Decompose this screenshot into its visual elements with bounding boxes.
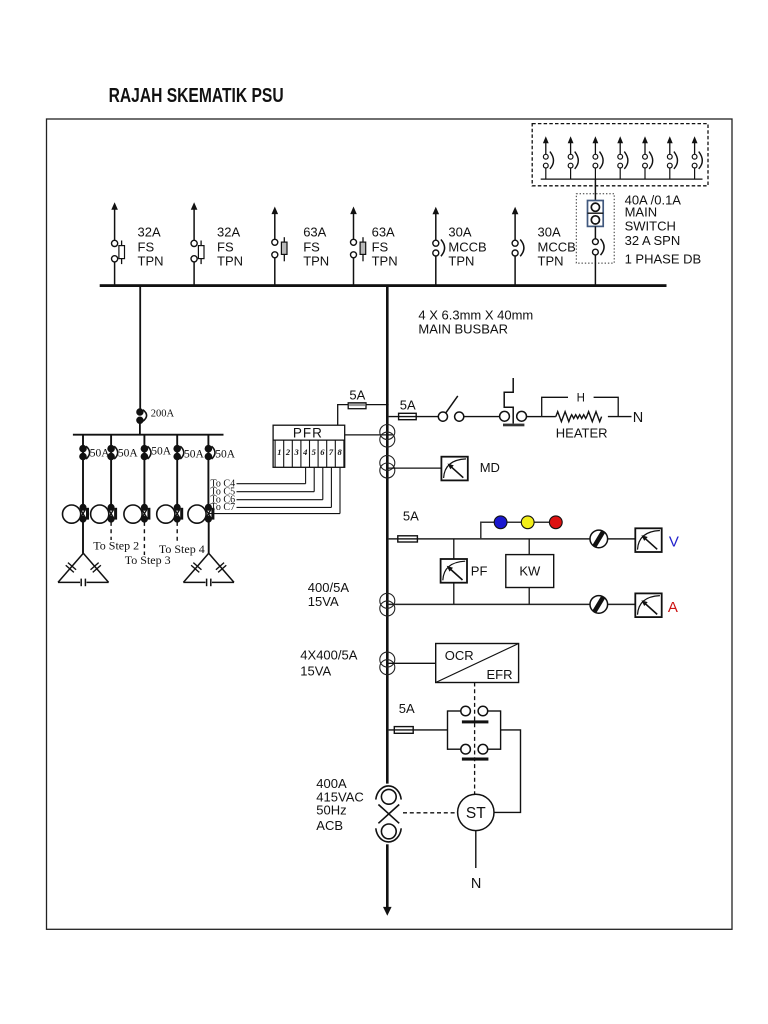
- svg-text:MAIN BUSBAR: MAIN BUSBAR: [418, 322, 508, 337]
- indicator lamp blue: [494, 516, 507, 529]
- fuse 5A contactor: [394, 727, 413, 734]
- dashed drop To Step 4: [176, 522, 178, 543]
- svg-text:To C7: To C7: [211, 502, 236, 513]
- DB mini feeders x7: [543, 136, 702, 179]
- MCCB feeder F6 30A: [512, 207, 524, 286]
- svg-text:50A: 50A: [90, 448, 111, 460]
- labels To C4-C7: [211, 478, 236, 513]
- svg-text:5A: 5A: [403, 508, 419, 523]
- svg-text:TPN: TPN: [217, 254, 243, 269]
- wire KW to A row: [528, 588, 530, 605]
- svg-text:N: N: [471, 876, 481, 892]
- svg-text:50Hz: 50Hz: [316, 803, 346, 818]
- wire CT4 to OCR: [387, 662, 435, 664]
- main switch dotted enclosure: [576, 194, 614, 263]
- svg-text:TPN: TPN: [138, 254, 164, 269]
- dashed trip line OCR to ST: [474, 683, 476, 795]
- label F3 63A FS TPN: [303, 225, 329, 269]
- capacitor delta bank 1: [58, 553, 109, 586]
- svg-text:To Step 4: To Step 4: [159, 542, 205, 556]
- fuse (V meter): [590, 530, 608, 548]
- svg-text:1 PHASE DB: 1 PHASE DB: [625, 252, 702, 267]
- svg-text:H: H: [577, 393, 585, 405]
- label F1 32A FS TPN: [138, 225, 164, 269]
- svg-text:TPN: TPN: [372, 254, 398, 269]
- wire bus to heater switch: [389, 416, 439, 418]
- svg-text:MCCB: MCCB: [448, 240, 486, 255]
- wire: [527, 416, 542, 418]
- PFR box: [273, 425, 345, 467]
- 1 phase DB dashed box: [532, 124, 708, 186]
- dashed line ACB to ST: [403, 812, 458, 814]
- fuse-switch feeder F3 63A: [272, 207, 288, 286]
- svg-text:FS: FS: [217, 240, 234, 255]
- svg-text:15VA: 15VA: [300, 664, 331, 679]
- label F4 63A FS TPN: [372, 225, 398, 269]
- main riser bus: [386, 285, 389, 784]
- svg-text:RAJAH SKEMATIK PSU: RAJAH SKEMATIK PSU: [109, 85, 284, 107]
- main switch fuse unit (blue): [58, 192, 701, 916]
- svg-text:50A: 50A: [184, 448, 205, 460]
- svg-text:2: 2: [285, 447, 291, 457]
- wire PFR to CT1: [345, 434, 393, 436]
- svg-text:PFR: PFR: [293, 425, 323, 440]
- svg-text:A: A: [668, 599, 678, 616]
- fuse-switch feeder F4 63A: [350, 207, 366, 286]
- CT 3: [380, 593, 395, 616]
- fuse 5A heater: [399, 413, 417, 419]
- svg-text:FS: FS: [138, 240, 155, 255]
- wire V row to PF: [453, 539, 455, 559]
- label 4X400/5A 15VA: [300, 648, 357, 679]
- dashed drop To Step 3: [143, 522, 145, 555]
- indicator lamp red: [549, 516, 562, 529]
- wire A row: [387, 603, 635, 605]
- wire contactor to ST: [494, 730, 521, 813]
- svg-text:OCR: OCR: [445, 648, 474, 663]
- svg-text:FS: FS: [303, 240, 320, 255]
- svg-text:50A: 50A: [118, 448, 138, 460]
- svg-text:KW: KW: [519, 564, 541, 579]
- fuse-switch feeder F1 32A: [111, 202, 124, 285]
- svg-text:200A: 200A: [151, 408, 175, 419]
- ACB drawout breaker: [376, 786, 401, 842]
- svg-text:63A: 63A: [372, 225, 395, 240]
- wire CT2 to MD: [387, 467, 441, 469]
- svg-text:SWITCH: SWITCH: [625, 219, 676, 234]
- PFR terminal cells: [275, 440, 344, 467]
- meter A: [635, 593, 661, 617]
- CT 1: [380, 425, 395, 448]
- svg-text:5A: 5A: [349, 388, 365, 403]
- ST coil circle: [458, 794, 494, 830]
- svg-text:5: 5: [312, 447, 317, 457]
- svg-text:50A: 50A: [151, 446, 172, 458]
- svg-text:32 A SPN: 32 A SPN: [625, 233, 681, 248]
- schematic frame: [47, 119, 733, 929]
- heater element bracket H: [542, 397, 619, 416]
- fuse 5A PFR: [348, 403, 388, 409]
- OCR EFR relay box: [436, 644, 519, 683]
- fuse-switch feeder F2 32A: [191, 202, 204, 285]
- lamp stub: [481, 522, 556, 539]
- svg-text:TPN: TPN: [448, 254, 474, 269]
- svg-text:30A: 30A: [448, 225, 471, 240]
- svg-text:32A: 32A: [138, 225, 161, 240]
- svg-text:4 X 6.3mm X 40mm: 4 X 6.3mm X 40mm: [418, 308, 533, 323]
- label 400/5A 15VA: [308, 580, 350, 609]
- CT 4: [380, 652, 395, 675]
- DB internal busbar: [541, 178, 703, 180]
- wire ST to N: [475, 831, 477, 868]
- svg-text:8: 8: [337, 447, 342, 457]
- wire: [464, 416, 500, 418]
- bus end arrow: [383, 907, 392, 916]
- wire branch5 to delta2: [208, 522, 210, 553]
- meter MD: [441, 457, 467, 481]
- labels 400A 415VAC 50Hz ACB: [316, 776, 363, 833]
- PFR supply riser: [338, 405, 349, 426]
- wire PFR 8 to capacitor line: [208, 513, 340, 515]
- svg-text:6: 6: [320, 447, 325, 457]
- svg-text:32A: 32A: [217, 225, 240, 240]
- svg-text:400/5A: 400/5A: [308, 580, 350, 595]
- capacitor delta bank 2: [183, 553, 234, 586]
- PFR title divider: [273, 439, 345, 441]
- svg-text:4: 4: [302, 447, 307, 457]
- heater resistor: [542, 412, 632, 422]
- svg-text:N: N: [633, 410, 643, 426]
- svg-text:3: 3: [293, 447, 299, 457]
- svg-text:4X400/5A: 4X400/5A: [300, 648, 357, 663]
- main switch labels: [625, 192, 702, 266]
- wire main switch to busbar: [594, 255, 596, 286]
- main bus lower: [386, 844, 389, 907]
- svg-text:15VA: 15VA: [308, 594, 339, 609]
- dashed drop To Step 2: [110, 522, 112, 540]
- wire DB to main switch: [594, 179, 596, 200]
- capacitor distribution line: [73, 434, 224, 436]
- wire V row: [389, 538, 636, 540]
- svg-text:5A: 5A: [399, 701, 415, 716]
- svg-text:5A: 5A: [400, 397, 416, 412]
- main busbar: [100, 284, 667, 287]
- svg-text:MCCB: MCCB: [538, 240, 576, 255]
- wire branch1 to delta1: [82, 522, 84, 553]
- KW transducer box: [506, 555, 554, 588]
- meter V: [635, 528, 661, 552]
- main switch contact: [593, 239, 605, 255]
- svg-text:HEATER: HEATER: [556, 426, 608, 441]
- wire V row to KW: [528, 539, 530, 555]
- svg-text:TPN: TPN: [538, 254, 564, 269]
- thermostat push contact: [500, 378, 527, 426]
- wire busbar to 200A switch: [139, 286, 141, 409]
- svg-text:TPN: TPN: [303, 254, 329, 269]
- svg-text:1: 1: [277, 447, 281, 457]
- svg-text:FS: FS: [372, 240, 389, 255]
- svg-text:EFR: EFR: [487, 667, 513, 682]
- svg-text:50A: 50A: [215, 448, 236, 460]
- label F2 32A FS TPN: [217, 225, 243, 269]
- svg-text:To Step 2: To Step 2: [93, 539, 139, 553]
- switch 200A: [137, 409, 147, 423]
- PFR terminal numbers 1-8: [277, 447, 342, 457]
- CT 2: [380, 455, 395, 478]
- svg-text:V: V: [669, 534, 679, 551]
- labels 50A x5: [90, 446, 236, 461]
- indicator lamp yellow: [521, 516, 534, 529]
- wire: [139, 423, 141, 435]
- label F5 30A MCCB TPN: [448, 225, 486, 269]
- MCCB feeder F5 30A: [433, 207, 445, 286]
- PFR output drops to C4-C7: [237, 467, 341, 513]
- svg-text:ST: ST: [466, 805, 486, 822]
- svg-text:MD: MD: [480, 460, 500, 475]
- contactor contacts: [448, 706, 501, 760]
- wire PF to A row: [453, 583, 455, 605]
- wire: [594, 226, 596, 239]
- label F6 30A MCCB TPN: [538, 225, 576, 269]
- busbar label: [418, 308, 533, 337]
- fuse 5A V row: [398, 536, 418, 542]
- branch drop wires x5: [83, 435, 208, 505]
- svg-text:PF: PF: [471, 563, 488, 578]
- wire bus to contactor: [389, 729, 448, 731]
- svg-text:63A: 63A: [303, 225, 326, 240]
- svg-text:MAIN: MAIN: [625, 204, 658, 219]
- meter PF: [441, 559, 467, 583]
- svg-text:ACB: ACB: [316, 818, 343, 833]
- switches 50A x5: [80, 446, 215, 460]
- fuse (A meter): [590, 596, 608, 614]
- heater switch: [438, 396, 464, 421]
- capacitor contactors x5: [63, 505, 215, 524]
- svg-text:30A: 30A: [538, 225, 561, 240]
